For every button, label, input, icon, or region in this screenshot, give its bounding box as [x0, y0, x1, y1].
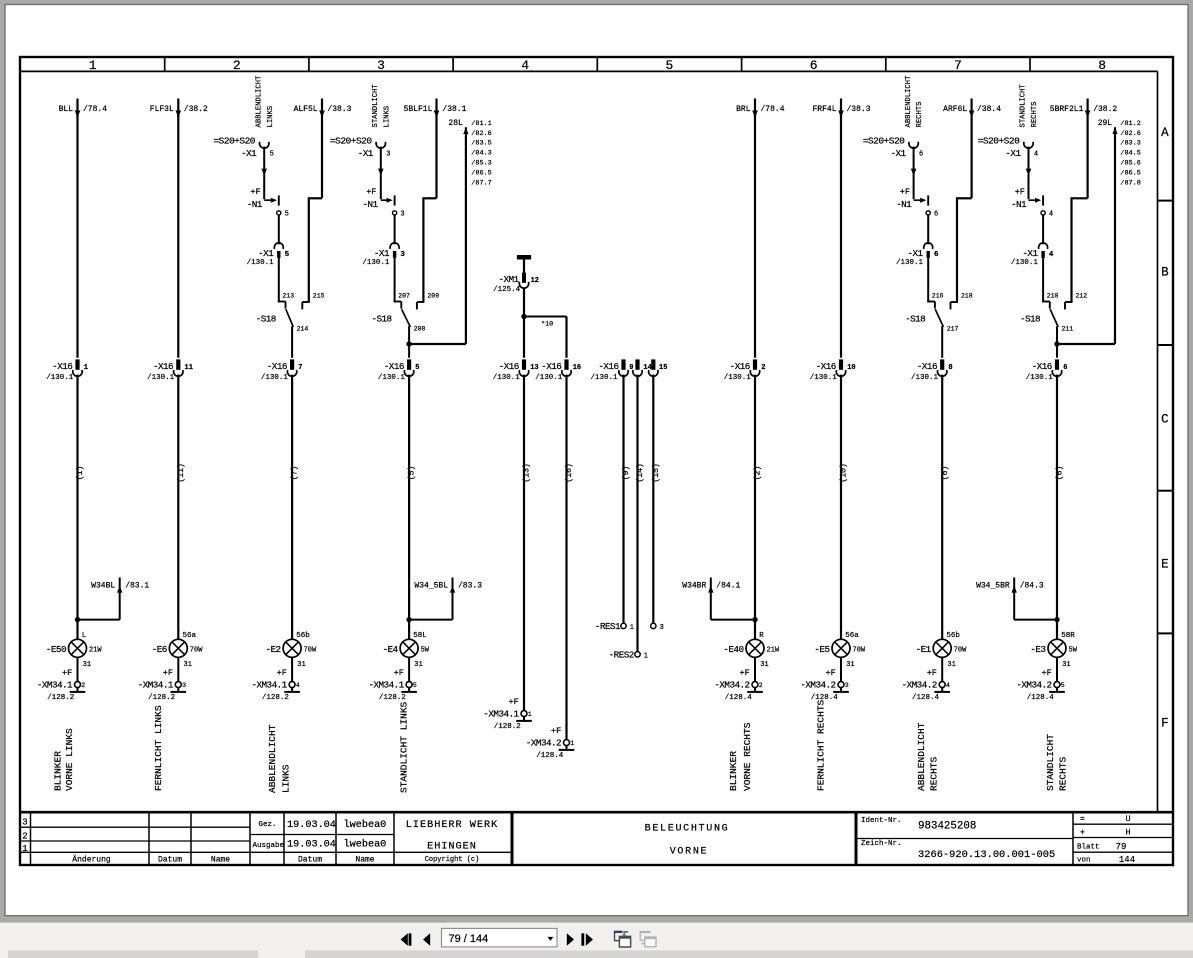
svg-text:5BRF2L1: 5BRF2L1 [1050, 105, 1084, 114]
svg-text:BRL: BRL [736, 105, 751, 114]
svg-text:BLINKER: BLINKER [728, 751, 739, 791]
svg-text:7: 7 [954, 58, 962, 73]
wire BRL /78.4 (feed from top) [736, 99, 785, 118]
svg-text:-X16: -X16 [1032, 361, 1052, 372]
svg-text:-XM34.2: -XM34.2 [800, 679, 835, 690]
svg-text:/82.6: /82.6 [1120, 130, 1140, 138]
terminal -XM34.2:1 /128.4 [526, 726, 574, 760]
field LIEBHERR WERK EHINGEN [406, 820, 498, 853]
connector =S20+S20 -X1:4 [978, 136, 1038, 159]
svg-text:217: 217 [947, 325, 959, 332]
svg-text:-N1: -N1 [896, 199, 912, 210]
svg-text:/81.2: /81.2 [1120, 120, 1140, 128]
toolbar button last page [581, 933, 593, 945]
svg-text:Zeich-Nr.: Zeich-Nr. [861, 840, 902, 848]
svg-text:/38.4: /38.4 [977, 105, 1001, 114]
column number 5 [665, 58, 673, 73]
lamp -E3 5W [1030, 632, 1077, 669]
svg-text:-XM34.2: -XM34.2 [526, 737, 561, 748]
toolbar button first page [401, 933, 412, 945]
wire BRL down to lamp -E40 [754, 110, 756, 639]
svg-text:/130.1: /130.1 [896, 259, 924, 267]
wire -X16:14 to -RES2:1 [636, 375, 638, 652]
svg-text:3: 3 [400, 251, 405, 259]
svg-text:+F: +F [739, 668, 749, 678]
svg-text:ABBLENDLICHT: ABBLENDLICHT [916, 722, 927, 791]
svg-text:29L: 29L [1098, 119, 1113, 128]
wire W34BR /84.1 (branch arrow) [682, 578, 757, 623]
wire BLL /78.4 (feed from top) [59, 99, 108, 118]
device -RES2 (pin 1) [609, 649, 648, 660]
field Gez. / Ausgabe [253, 821, 285, 850]
wire FRF4L /38.3 (feed from top) [812, 99, 870, 118]
title block border lines [20, 811, 1173, 864]
svg-text:Blatt: Blatt [1077, 844, 1100, 852]
svg-text:5: 5 [270, 150, 274, 158]
field names lwebea0 [344, 819, 387, 851]
svg-text:/84.1: /84.1 [716, 581, 740, 590]
svg-text:/87.8: /87.8 [1120, 180, 1140, 188]
svg-text:Name: Name [211, 855, 230, 864]
field Zeich-Nr. 3266-920.13.00.001-005 [861, 840, 1055, 861]
wire number (13) [522, 463, 532, 483]
svg-text:+F: +F [900, 187, 910, 197]
terminal -XM34.2:4 [902, 657, 950, 702]
svg-text:-S18: -S18 [1020, 314, 1040, 325]
wire number (7) [290, 466, 300, 481]
wire -X1:4 to relay contact [1026, 147, 1032, 200]
svg-text:14: 14 [643, 364, 651, 372]
label STANDLICHT RECHTS [1045, 734, 1069, 791]
connector -X16:6 [1026, 359, 1068, 382]
svg-text:=S20+S20: =S20+S20 [213, 136, 255, 147]
wire FLF3L /38.2 (feed from top) [150, 99, 208, 118]
wire W34_5BR /84.3 (branch arrow) [976, 578, 1060, 623]
svg-text:11: 11 [185, 364, 193, 372]
wire number (14) [635, 463, 645, 483]
svg-text:-X1: -X1 [358, 148, 374, 159]
svg-text:+F: +F [394, 668, 404, 678]
svg-text:31: 31 [184, 661, 192, 669]
switch -S18 (216/217/218) [905, 292, 973, 332]
svg-text:A: A [1161, 126, 1169, 140]
node junction *10 [521, 314, 566, 329]
svg-text:/130.1: /130.1 [535, 374, 563, 382]
svg-text:-XM34.1: -XM34.1 [483, 708, 519, 719]
wire feed jog to throw 209 [423, 99, 439, 303]
connector -X16:7 [261, 359, 303, 382]
svg-text:-X16: -X16 [384, 361, 404, 372]
svg-text:31: 31 [1062, 661, 1070, 669]
taskbar strip [8, 950, 1193, 958]
wire number (11) [176, 463, 186, 483]
svg-text:LINKS: LINKS [280, 764, 291, 793]
svg-text:21W: 21W [767, 647, 780, 655]
svg-text:983425208: 983425208 [918, 820, 976, 832]
connector -X16:13 [493, 359, 539, 382]
svg-text:RECHTS: RECHTS [916, 102, 924, 128]
svg-text:/83.5: /83.5 [471, 140, 491, 148]
wire number (2) [753, 466, 763, 481]
svg-text:8: 8 [1098, 58, 1106, 73]
svg-text:/83.3: /83.3 [458, 581, 482, 590]
svg-text:/128.4: /128.4 [912, 694, 940, 702]
svg-text:212: 212 [1076, 292, 1088, 299]
svg-text:Ident-Nr.: Ident-Nr. [861, 817, 902, 825]
svg-text:56a: 56a [845, 632, 859, 640]
svg-text:4: 4 [1049, 251, 1054, 259]
switch -S18 (213/214/215) [256, 292, 325, 332]
relay contact -N1 +F (pin 3) [363, 187, 405, 219]
svg-text:Änderung: Änderung [72, 855, 111, 864]
svg-text:ARF6L: ARF6L [943, 105, 967, 114]
svg-text:/82.6: /82.6 [471, 130, 491, 138]
svg-text:1: 1 [84, 364, 88, 372]
wire feed jog to throw 212 [1072, 99, 1091, 303]
svg-text:/85.3: /85.3 [471, 160, 491, 168]
svg-text:Gez.: Gez. [259, 821, 277, 829]
svg-text:/84.3: /84.3 [1020, 581, 1044, 590]
svg-text:LINKS: LINKS [383, 106, 391, 128]
svg-text:ABBLENDLICHT: ABBLENDLICHT [255, 75, 263, 127]
lamp -E5 70W [814, 632, 865, 669]
revision row numbers 3 2 1 [22, 817, 27, 854]
svg-text:/128.2: /128.2 [262, 694, 289, 702]
svg-text:+F: +F [551, 726, 561, 736]
connector -X1:4 /130.1 [1011, 215, 1054, 266]
svg-text:-N1: -N1 [247, 199, 263, 210]
svg-text:VORNE LINKS: VORNE LINKS [64, 728, 75, 791]
label ABBLENDLICHT LINKS (top, rotated) [255, 75, 274, 127]
svg-text:-E2: -E2 [266, 644, 281, 655]
svg-text:/130.1: /130.1 [147, 374, 175, 382]
toolbar button previous page [423, 933, 430, 945]
wire -X1:6 to relay contact [911, 147, 917, 200]
wire to lamp -E2 [291, 375, 293, 640]
field dates [287, 820, 336, 851]
svg-text:RECHTS: RECHTS [928, 756, 939, 791]
label STANDLICHT LINKS (top, rotated) [372, 84, 391, 128]
svg-text:=S20+S20: =S20+S20 [978, 136, 1020, 147]
svg-text:-X16: -X16 [816, 361, 836, 372]
toolbar icon previous view [614, 931, 631, 947]
svg-text:+F: +F [163, 668, 173, 678]
svg-text:10: 10 [847, 364, 855, 372]
svg-text:/130.1: /130.1 [911, 374, 939, 382]
svg-text:-E3: -E3 [1030, 644, 1045, 655]
wire switch output 214 [291, 326, 293, 358]
svg-text:5: 5 [1061, 682, 1065, 689]
svg-text:/83.1: /83.1 [125, 581, 149, 590]
connector =S20+S20 -X1:3 [330, 136, 390, 159]
wire 5BLF1L /38.1 label [404, 105, 467, 114]
lamp -E2 70W [266, 632, 317, 669]
row label C [1161, 412, 1169, 426]
svg-text:2: 2 [761, 364, 765, 372]
svg-text:/86.5: /86.5 [1120, 170, 1140, 178]
svg-text:/130.1: /130.1 [362, 259, 390, 267]
svg-text:+: + [1080, 829, 1085, 838]
svg-text:213: 213 [282, 292, 294, 299]
wire switch output 208 [408, 326, 410, 358]
row separator C/E [1158, 490, 1174, 492]
svg-text:215: 215 [313, 292, 325, 299]
svg-text:31: 31 [297, 661, 305, 669]
svg-text:31: 31 [83, 661, 91, 669]
svg-text:R: R [759, 632, 764, 640]
svg-text:58R: 58R [1061, 632, 1075, 640]
connector -X16:16 [535, 359, 581, 382]
svg-text:/130.1: /130.1 [378, 374, 406, 382]
wire -X16:15 to -RES1:3 [652, 375, 654, 624]
svg-text:207: 207 [398, 292, 410, 299]
column header strip [20, 57, 1158, 71]
svg-text:28L: 28L [448, 119, 463, 128]
svg-text:5: 5 [285, 251, 290, 259]
svg-text:-XM34.2: -XM34.2 [902, 679, 937, 690]
node junction 28L [406, 341, 466, 346]
wire number (10) [839, 463, 849, 483]
svg-text:5W: 5W [1069, 647, 1078, 655]
svg-text:-X1: -X1 [1022, 248, 1038, 259]
svg-text:-X16: -X16 [267, 361, 287, 372]
svg-text:-E4: -E4 [383, 644, 399, 655]
svg-text:8: 8 [948, 364, 952, 372]
wire number (8) [940, 466, 950, 481]
terminal -XM34.2:2 [714, 657, 762, 702]
wire -X1 to switch terminal 207 [395, 258, 410, 302]
svg-text:1: 1 [89, 58, 97, 73]
terminal -XM34.1:5 [368, 657, 416, 702]
lamp -E6 70W [152, 632, 203, 669]
svg-text:6: 6 [934, 211, 938, 219]
column number 4 [521, 58, 529, 73]
device -RES1 (pins 1,3) [595, 621, 664, 632]
svg-text:BLINKER: BLINKER [52, 751, 63, 791]
svg-text:/130.1: /130.1 [810, 374, 838, 382]
connector -X16:8 [911, 359, 953, 382]
svg-text:BLL: BLL [59, 105, 74, 114]
svg-text:L: L [82, 632, 87, 640]
svg-text:Name: Name [355, 855, 374, 864]
label ABBLENDLICHT RECHTS [916, 722, 940, 791]
svg-text:(1): (1) [75, 466, 85, 481]
svg-text:3: 3 [386, 150, 390, 158]
row separator A/B [1158, 200, 1174, 202]
svg-text:-X1: -X1 [891, 148, 907, 159]
column number 1 [89, 58, 97, 73]
lamp -E1 70W [916, 632, 967, 669]
svg-text:-X16: -X16 [153, 361, 173, 372]
wire -X1:3 to relay contact [378, 147, 384, 200]
svg-text:3: 3 [660, 624, 664, 632]
svg-text:C: C [1161, 412, 1169, 426]
field drawing title BELEUCHTUNG VORNE [645, 823, 730, 857]
svg-text:19.03.04: 19.03.04 [287, 840, 336, 851]
wire switch output 217 [941, 326, 943, 358]
svg-text:5: 5 [665, 58, 673, 73]
svg-text:lwebea0: lwebea0 [344, 839, 387, 851]
column number 2 [233, 58, 241, 73]
svg-text:/86.5: /86.5 [471, 170, 491, 178]
svg-text:19.03.04: 19.03.04 [287, 820, 336, 831]
svg-text:-X1: -X1 [258, 248, 274, 259]
svg-text:B: B [1161, 265, 1169, 279]
svg-text:70W: 70W [853, 647, 866, 655]
svg-text:BELEUCHTUNG: BELEUCHTUNG [645, 823, 730, 834]
svg-text:VORNE RECHTS: VORNE RECHTS [742, 722, 753, 791]
svg-text:+F: +F [277, 668, 287, 678]
wire ALF5L /38.3 label [294, 105, 352, 114]
svg-text:-S18: -S18 [371, 314, 391, 325]
connector -X16:9 14 15 group [590, 359, 667, 382]
wire feed jog to throw 215 [309, 99, 325, 303]
label BLINKER VORNE RECHTS [728, 722, 753, 791]
svg-text:9: 9 [629, 364, 633, 372]
row separator E/F [1158, 632, 1174, 634]
svg-text:(10): (10) [839, 463, 849, 483]
svg-text:/128.2: /128.2 [379, 694, 406, 702]
connector -X1:6 /130.1 [896, 215, 939, 266]
svg-text:58L: 58L [413, 632, 427, 640]
svg-text:/128.4: /128.4 [536, 752, 564, 760]
svg-text:3: 3 [22, 817, 27, 827]
field Ident-Nr. 983425208 [861, 817, 976, 833]
svg-text:/38.1: /38.1 [442, 105, 466, 114]
svg-text:/130.1: /130.1 [247, 259, 275, 267]
svg-text:U: U [1125, 814, 1130, 824]
svg-text:/128.2: /128.2 [47, 694, 74, 702]
svg-text:/38.3: /38.3 [847, 105, 871, 114]
svg-text:/130.1: /130.1 [46, 374, 74, 382]
svg-text:211: 211 [1062, 325, 1074, 332]
svg-text:6: 6 [810, 58, 818, 73]
viewer toolbar background [0, 923, 1193, 958]
svg-text:von: von [1077, 857, 1091, 865]
svg-text:/84.5: /84.5 [1120, 150, 1140, 158]
svg-text:/130.1: /130.1 [1011, 259, 1039, 267]
svg-text:1: 1 [22, 844, 27, 854]
svg-text:3: 3 [400, 211, 404, 219]
relay contact -N1 +F (pin 4) [1011, 187, 1053, 219]
svg-text:56b: 56b [296, 632, 310, 640]
connector -X16:5 [378, 359, 420, 382]
svg-text:218: 218 [961, 292, 973, 299]
svg-text:-X1: -X1 [241, 148, 257, 159]
wire -X16:9 to -RES1:1 [622, 375, 624, 624]
svg-text:+F: +F [927, 668, 937, 678]
svg-text:/130.1: /130.1 [1026, 374, 1054, 382]
svg-text:/128.4: /128.4 [725, 694, 753, 702]
svg-text:-S18: -S18 [905, 314, 925, 325]
lamp -E4 5W [383, 632, 430, 669]
svg-text:209: 209 [427, 292, 439, 299]
svg-text:/128.2: /128.2 [494, 723, 521, 731]
toolbar icon next view (disabled) [640, 931, 656, 947]
wire -X16:16 down [565, 375, 567, 740]
wire number (9) [621, 466, 631, 481]
svg-text:(2): (2) [753, 466, 763, 481]
svg-text:-XM34.1: -XM34.1 [251, 679, 287, 690]
svg-text:=S20+S20: =S20+S20 [330, 136, 372, 147]
svg-text:=S20+S20: =S20+S20 [863, 136, 905, 147]
wire feed jog to throw 218 [957, 99, 974, 303]
svg-text:-X16: -X16 [730, 361, 750, 372]
svg-text:208: 208 [414, 325, 426, 332]
wire to lamp -E4 [408, 375, 410, 640]
svg-text:144: 144 [1119, 855, 1135, 865]
wire BLL down to lamp -E50 [76, 110, 78, 639]
column number 3 [377, 58, 385, 73]
wire -X1 to switch terminal 216 [928, 258, 943, 302]
row label F [1161, 716, 1169, 730]
svg-text:70W: 70W [190, 647, 203, 655]
svg-text:ABBLENDLICHT: ABBLENDLICHT [267, 724, 278, 793]
connector -X1:5 /130.1 [247, 215, 290, 266]
svg-text:70W: 70W [304, 647, 317, 655]
svg-text:/125.4: /125.4 [493, 286, 521, 294]
svg-text:Datum: Datum [298, 855, 322, 864]
svg-text:/38.2: /38.2 [184, 105, 208, 114]
wire -X1 to switch terminal 210 [1043, 258, 1058, 302]
label ABBLENDLICHT RECHTS (top, rotated) [905, 75, 924, 127]
svg-text:/130.1: /130.1 [590, 374, 618, 382]
svg-text:-XM1: -XM1 [498, 274, 519, 285]
svg-text:5W: 5W [421, 647, 430, 655]
svg-text:56b: 56b [946, 632, 960, 640]
terminal -XM34.2:3 [800, 657, 848, 702]
svg-text:4: 4 [1034, 150, 1038, 158]
wire W34_5BL /83.3 (branch arrow) [406, 578, 482, 623]
svg-text:3: 3 [182, 682, 186, 689]
svg-text:3: 3 [845, 682, 849, 689]
connector -X16:11 [147, 359, 193, 382]
label STANDLICHT LINKS [398, 701, 409, 793]
svg-text:216: 216 [932, 292, 944, 299]
svg-text:-X16: -X16 [52, 361, 72, 372]
svg-text:-E50: -E50 [46, 644, 66, 655]
terminal -XM34.1:1 /128.2 [483, 697, 531, 731]
wire number (15) [651, 463, 661, 483]
svg-text:/128.4: /128.4 [1027, 694, 1055, 702]
lamp -E40 21W [723, 632, 780, 669]
fields = U / + H / Blatt / von [1077, 814, 1135, 865]
svg-text:+F: +F [1015, 187, 1025, 197]
column number 7 [954, 58, 962, 73]
row label E [1161, 557, 1169, 571]
wire -XM1 to -X16:13 [523, 288, 525, 358]
svg-text:-X16: -X16 [917, 361, 937, 372]
svg-text:/128.2: /128.2 [148, 694, 175, 702]
svg-text:70W: 70W [954, 647, 967, 655]
svg-text:E: E [1161, 557, 1169, 571]
svg-text:12: 12 [531, 277, 539, 285]
svg-text:5BLF1L: 5BLF1L [404, 105, 433, 114]
wire to lamp -E3 [1056, 375, 1058, 640]
svg-text:-RES2: -RES2 [609, 649, 634, 660]
svg-text:+F: +F [366, 187, 376, 197]
label STANDLICHT RECHTS (top, rotated) [1020, 84, 1039, 128]
wire switch output 211 [1056, 326, 1058, 358]
svg-text:4: 4 [1049, 211, 1053, 219]
svg-text:/85.6: /85.6 [1120, 160, 1140, 168]
svg-text:VORNE: VORNE [670, 847, 709, 858]
svg-text:+F: +F [825, 668, 835, 678]
svg-text:/38.3: /38.3 [327, 105, 351, 114]
svg-text:-N1: -N1 [1011, 199, 1027, 210]
svg-text:-X16: -X16 [598, 361, 618, 372]
label BLINKER VORNE LINKS [52, 728, 75, 791]
